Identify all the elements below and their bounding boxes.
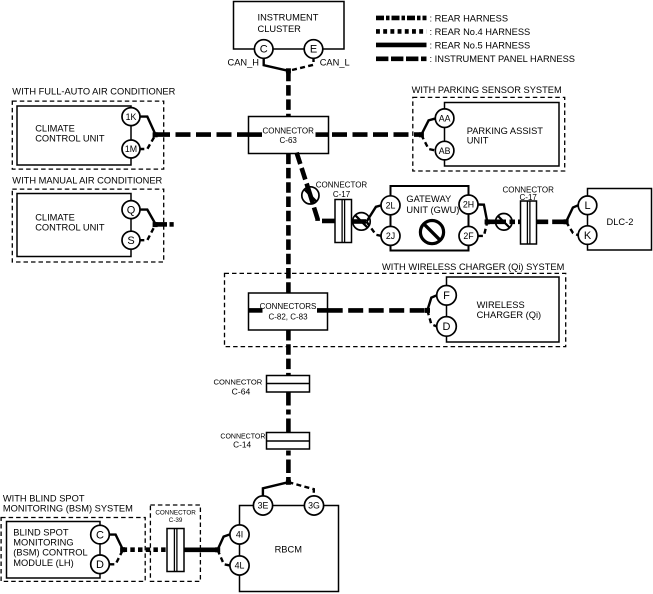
junction DLC-2 — [564, 219, 569, 224]
wire C-17 to DLC-2 split (dashed) — [536, 220, 566, 225]
svg-text:K: K — [584, 230, 592, 242]
svg-text:WITH BLIND SPOT: WITH BLIND SPOT — [3, 493, 85, 503]
svg-text:C-63: C-63 — [280, 136, 298, 145]
svg-text:: REAR No.5 HARNESS: : REAR No.5 HARNESS — [430, 40, 531, 50]
svg-text:L: L — [584, 200, 590, 212]
svg-text:4I: 4I — [236, 530, 243, 540]
wire stub inside C-63 right — [316, 132, 329, 137]
svg-text:DLC-2: DLC-2 — [607, 217, 634, 227]
connector C-17 (right) symbol — [521, 201, 537, 244]
svg-text:CONNECTOR: CONNECTOR — [262, 127, 314, 136]
connector C-17 (left) symbol — [335, 200, 352, 243]
svg-text:CONTROL UNIT: CONTROL UNIT — [35, 134, 105, 144]
pin 1K — [122, 108, 140, 126]
wire harness right: C-63 to parking junction — [332, 132, 421, 137]
svg-text:UNIT (GWU): UNIT (GWU) — [406, 205, 459, 215]
legend line INSTRUMENT PANEL HARNESS — [376, 56, 427, 61]
wire stub inside C-82/83 right — [317, 308, 328, 313]
junction right of GWU — [485, 219, 490, 224]
svg-text:CLIMATE: CLIMATE — [35, 124, 75, 134]
svg-text:3G: 3G — [308, 501, 320, 511]
svg-text:WIRELESS: WIRELESS — [477, 300, 525, 310]
junction CAN node — [286, 68, 291, 73]
junction RBCM — [286, 480, 291, 485]
connector C-39 symbol — [167, 529, 184, 572]
pin 3G — [304, 496, 323, 515]
svg-text:E: E — [310, 44, 317, 56]
svg-text:2J: 2J — [386, 231, 395, 241]
junction climate1 — [153, 132, 158, 137]
wireless charger box — [447, 277, 560, 342]
svg-text:4L: 4L — [235, 561, 245, 571]
wire trunk C-63 down to C-82/C-83 — [286, 154, 291, 293]
svg-text:Q: Q — [127, 204, 136, 216]
svg-text:BLIND SPOT: BLIND SPOT — [13, 527, 69, 537]
parking assist unit box — [445, 103, 560, 167]
svg-text:CONNECTOR: CONNECTOR — [316, 181, 368, 190]
svg-text:2H: 2H — [463, 200, 474, 210]
svg-text:CAN_L: CAN_L — [320, 57, 350, 67]
wire dashed into C-17 right — [510, 220, 521, 225]
svg-text:AB: AB — [439, 146, 451, 156]
svg-text:MODULE (LH): MODULE (LH) — [13, 558, 73, 568]
svg-text:C-82, C-83: C-82, C-83 — [268, 312, 308, 321]
pin 3E — [253, 496, 272, 515]
wire pin Q to junction — [139, 210, 155, 223]
dashed option box manual A/C — [12, 189, 163, 262]
connectors C-82 C-83 box — [249, 293, 328, 330]
connector C-63 box — [249, 117, 329, 154]
wire C-17 to GWU split — [351, 219, 366, 224]
pin AA — [435, 109, 454, 128]
wire stub dot — [170, 222, 174, 227]
wire CAN_H from pin C — [264, 57, 289, 71]
pin 4L — [230, 556, 249, 575]
connector C-64 symbol — [267, 376, 310, 393]
svg-text:CAN_H: CAN_H — [228, 57, 260, 67]
wire trunk C-64 to C-14 (rear harness) — [286, 392, 291, 433]
svg-text:C-39: C-39 — [169, 517, 183, 524]
pin 2L — [381, 196, 400, 215]
pin AB — [435, 141, 454, 160]
wire diagonal C-63 to connector C-17 — [297, 153, 335, 221]
svg-text:C: C — [96, 529, 104, 541]
wire stub inside C-82/83 left — [248, 308, 263, 313]
svg-text:3E: 3E — [258, 501, 269, 511]
svg-text:S: S — [127, 235, 134, 247]
wire pin S to junction (dashed) — [139, 226, 155, 241]
no-connection symbol large inside GWU — [420, 221, 443, 244]
svg-text:CONNECTOR: CONNECTOR — [155, 510, 196, 517]
wire to pin K (dashed) — [566, 222, 578, 235]
wire trunk instrument panel harness: junction to C-63 — [286, 71, 291, 117]
connector C-14 symbol — [267, 433, 310, 450]
no-connection symbol after C-17 — [353, 213, 371, 231]
svg-text:F: F — [443, 290, 450, 302]
junction climate2 — [153, 222, 158, 227]
wire pin C to junction — [109, 535, 122, 549]
wire to pin 3E — [263, 482, 289, 496]
wire stub from manual A/C junction — [155, 222, 167, 227]
junction BSM — [120, 547, 125, 552]
wire to pin 2J (dashed) — [367, 222, 382, 236]
wire to pin 4L (dashed) — [218, 550, 230, 566]
wire to pin D (dashed) — [427, 310, 436, 326]
wire to pin L — [566, 205, 578, 222]
wire junction to pin AB (dashed) — [421, 135, 436, 151]
pin S — [122, 231, 140, 249]
dashed option box BSM — [1, 518, 145, 582]
legend line REAR No.5 HARNESS — [376, 43, 427, 48]
legend line REAR No.4 HARNESS — [376, 29, 427, 34]
dashed option box parking sensor — [413, 97, 565, 171]
pin E — [304, 40, 323, 59]
wire junction to pin AA — [421, 118, 436, 135]
BSM control module box — [7, 522, 101, 579]
wire pin 2F to junction (dashed) — [478, 223, 487, 236]
no-connection symbol right of GWU — [496, 214, 513, 231]
pin 2J — [381, 226, 400, 245]
svg-text:MONITORING: MONITORING — [13, 538, 73, 548]
junction 4I/4L — [215, 547, 220, 552]
svg-text:AA: AA — [439, 113, 451, 123]
dashed option box full-auto A/C — [12, 101, 163, 169]
wire to pin F — [427, 295, 436, 310]
climate control unit box (manual) — [17, 194, 131, 257]
pin D (BSM) — [91, 555, 110, 574]
wire pin 1K to junction — [139, 117, 155, 134]
wire trunk C-82/83 to C-64 — [286, 330, 291, 375]
pin C (BSM) — [91, 525, 110, 544]
svg-text:CHARGER (Qi): CHARGER (Qi) — [477, 310, 542, 320]
svg-text:WITH MANUAL AIR CONDITIONER: WITH MANUAL AIR CONDITIONER — [12, 175, 162, 185]
wire CAN_L from pin E (dashed) — [289, 57, 314, 71]
pin Q — [122, 201, 140, 219]
svg-text:WITH WIRELESS CHARGER (Qi) SYS: WITH WIRELESS CHARGER (Qi) SYSTEM — [382, 262, 564, 272]
svg-text:UNIT: UNIT — [467, 136, 489, 146]
pin 4I — [230, 525, 249, 544]
svg-text:WITH FULL-AUTO AIR CONDITIONER: WITH FULL-AUTO AIR CONDITIONER — [12, 86, 175, 96]
pin L — [578, 196, 597, 215]
wire to pin 2L — [367, 205, 382, 221]
wire stub inside C-63 left — [248, 132, 262, 137]
pin F — [437, 286, 457, 306]
svg-text:RBCM: RBCM — [275, 544, 302, 554]
svg-text:D: D — [96, 559, 104, 571]
wire harness C-82/83 to wireless charger — [328, 308, 428, 313]
wire dotted BSM to C-39 (rear No.4) — [123, 547, 167, 552]
svg-text:: REAR HARNESS: : REAR HARNESS — [430, 13, 509, 23]
svg-text:: INSTRUMENT PANEL HARNESS: : INSTRUMENT PANEL HARNESS — [430, 54, 576, 64]
gateway unit box — [391, 186, 469, 251]
svg-text:WITH PARKING SENSOR SYSTEM: WITH PARKING SENSOR SYSTEM — [412, 85, 562, 95]
climate control unit box (full-auto) — [17, 106, 131, 165]
pin 2F — [459, 226, 478, 245]
svg-text:D: D — [443, 321, 451, 333]
wire junction through no-connection — [487, 220, 506, 225]
svg-text:2F: 2F — [463, 231, 474, 241]
svg-text:CONNECTORS: CONNECTORS — [260, 302, 317, 311]
svg-text:1M: 1M — [125, 144, 137, 154]
svg-text:GATEWAY: GATEWAY — [406, 194, 451, 204]
wire pin 2H to junction — [478, 205, 487, 221]
pin 2H — [459, 195, 478, 214]
svg-text:PARKING ASSIST: PARKING ASSIST — [467, 126, 544, 136]
RBCM box — [240, 506, 339, 592]
no-connection symbol on diagonal — [302, 187, 319, 204]
wire to pin 4I — [218, 534, 230, 549]
junction parking — [419, 132, 424, 137]
instrument cluster box — [234, 2, 345, 50]
pin K — [578, 226, 597, 245]
svg-text:CLUSTER: CLUSTER — [258, 24, 302, 34]
wire pin D to junction (dashed) — [109, 550, 122, 564]
pin C — [254, 40, 273, 59]
svg-text:(BSM) CONTROL: (BSM) CONTROL — [13, 548, 87, 558]
pin 1M — [122, 140, 140, 158]
wire solid C-39 to RBCM (rear No.5) — [184, 547, 218, 552]
svg-text:C-64: C-64 — [232, 386, 251, 396]
dashed option box C-39 — [150, 505, 200, 581]
legend line REAR HARNESS — [376, 16, 427, 21]
svg-text:C: C — [260, 44, 268, 56]
junction wireless — [425, 308, 430, 313]
dashed option box wireless charger — [225, 273, 566, 346]
svg-text:1K: 1K — [126, 112, 137, 122]
pin D — [437, 317, 457, 337]
wire trunk C-14 to RBCM junction (rear harness) — [286, 449, 291, 482]
svg-text:: REAR No.4 HARNESS: : REAR No.4 HARNESS — [430, 27, 531, 37]
wire pin 1M to junction (dashed) — [139, 136, 155, 149]
DLC-2 box — [588, 189, 652, 251]
svg-text:MONITORING (BSM) SYSTEM: MONITORING (BSM) SYSTEM — [3, 503, 133, 513]
svg-text:C-17: C-17 — [333, 190, 351, 199]
wire harness left: C-63 to climate junction — [155, 132, 249, 137]
wire to pin 3G (dashed) — [288, 482, 313, 496]
svg-text:CONTROL UNIT: CONTROL UNIT — [35, 223, 105, 233]
svg-text:CLIMATE: CLIMATE — [35, 213, 75, 223]
svg-text:2L: 2L — [386, 201, 396, 211]
svg-text:C-14: C-14 — [233, 439, 251, 449]
svg-text:INSTRUMENT: INSTRUMENT — [258, 12, 319, 22]
